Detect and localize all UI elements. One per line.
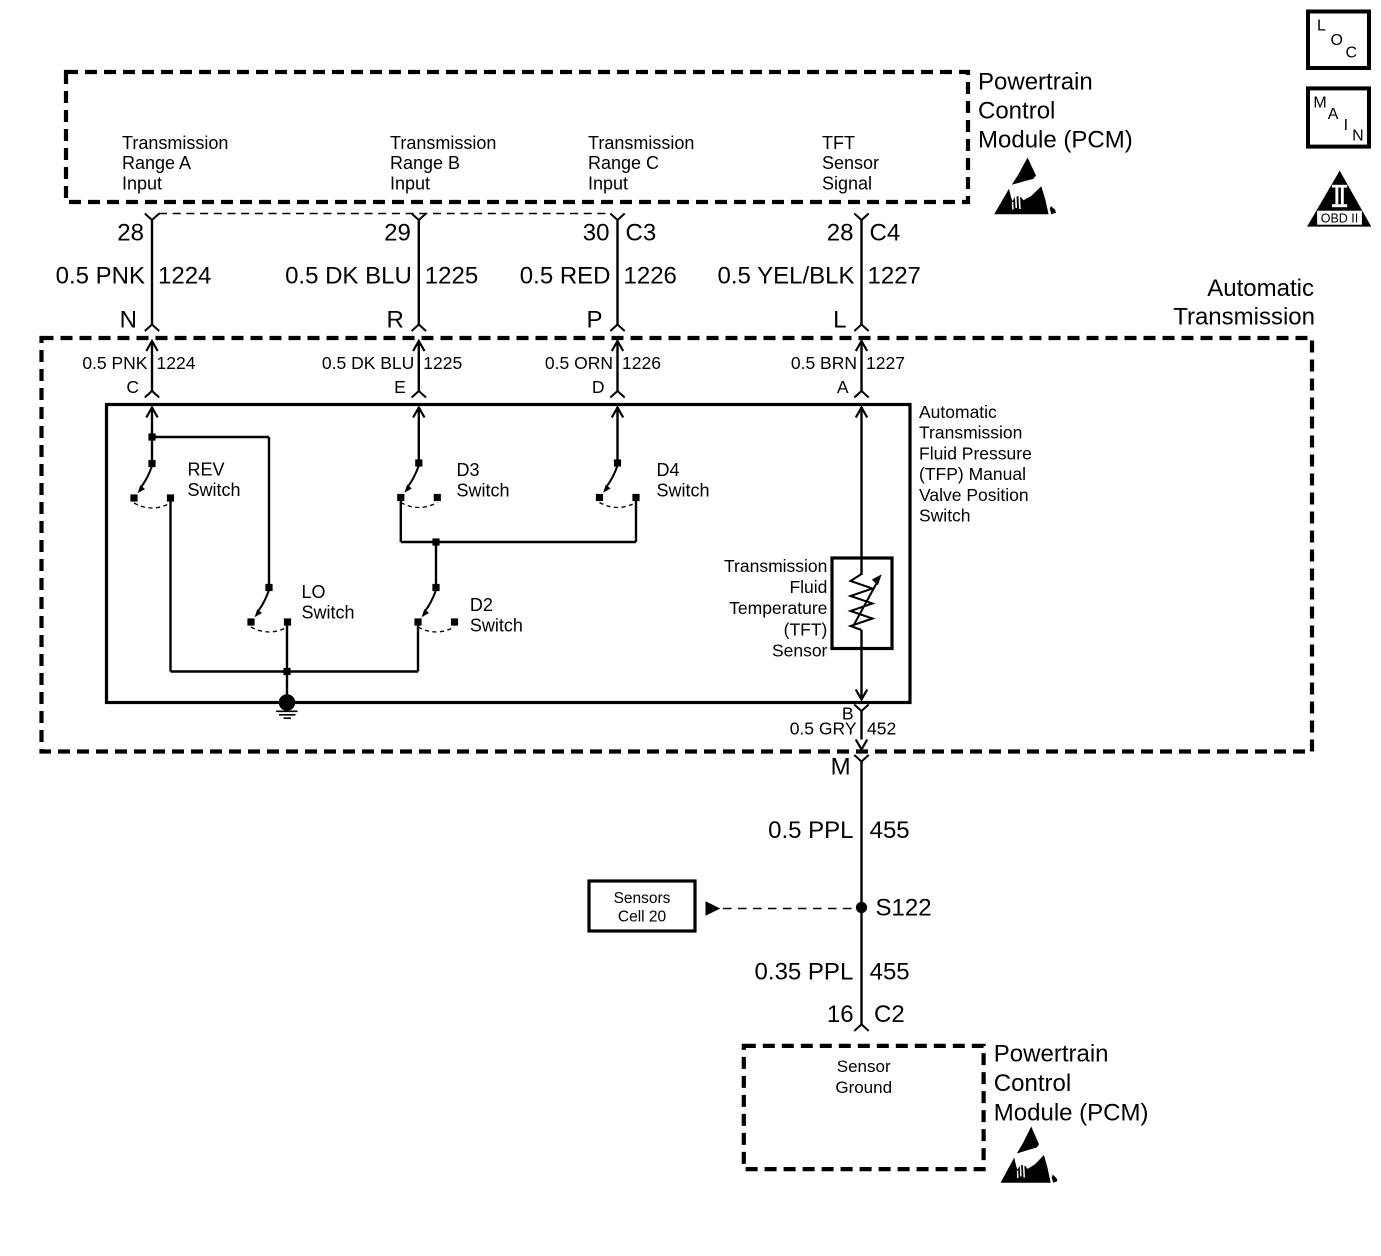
svg-text:Control: Control (978, 98, 1055, 125)
svg-text:0.5 PNK: 0.5 PNK (56, 262, 145, 289)
svg-text:(TFT): (TFT) (784, 619, 828, 639)
svg-text:M: M (1313, 94, 1326, 111)
svg-text:C2: C2 (874, 1001, 905, 1028)
svg-text:D2: D2 (470, 595, 493, 615)
svg-text:1224: 1224 (158, 262, 211, 289)
svg-text:C: C (126, 377, 139, 397)
svg-text:L: L (833, 306, 846, 333)
svg-text:Input: Input (588, 173, 628, 193)
svg-text:C4: C4 (870, 220, 901, 247)
svg-text:Powertrain: Powertrain (994, 1040, 1109, 1067)
svg-text:0.5 GRY: 0.5 GRY (790, 719, 857, 739)
svg-text:Module (PCM): Module (PCM) (978, 127, 1133, 154)
svg-text:Automatic: Automatic (1207, 275, 1314, 302)
svg-text:16: 16 (827, 1001, 854, 1028)
svg-text:Range C: Range C (588, 153, 659, 173)
svg-text:(TFP) Manual: (TFP) Manual (919, 464, 1026, 484)
svg-text:Transmission: Transmission (588, 133, 694, 153)
svg-text:Sensors: Sensors (614, 890, 671, 907)
svg-text:Valve Position: Valve Position (919, 485, 1029, 505)
svg-text:1227: 1227 (866, 353, 905, 373)
svg-text:D4: D4 (657, 460, 680, 480)
svg-text:D3: D3 (457, 460, 480, 480)
svg-text:0.35 PPL: 0.35 PPL (755, 958, 854, 985)
svg-text:Range B: Range B (390, 153, 460, 173)
svg-text:Switch: Switch (657, 481, 710, 501)
svg-text:Sensor: Sensor (837, 1057, 891, 1076)
svg-text:0.5 YEL/BLK: 0.5 YEL/BLK (718, 262, 855, 289)
svg-text:1227: 1227 (868, 262, 921, 289)
svg-text:OBD II: OBD II (1321, 211, 1359, 225)
svg-text:N: N (1352, 128, 1364, 145)
svg-text:O: O (1331, 32, 1343, 49)
svg-text:0.5 PPL: 0.5 PPL (768, 817, 853, 844)
svg-text:Control: Control (994, 1070, 1071, 1097)
svg-text:LO: LO (302, 582, 326, 602)
svg-text:N: N (120, 306, 137, 333)
svg-text:Transmission: Transmission (724, 556, 827, 576)
svg-text:Temperature: Temperature (729, 598, 827, 618)
svg-text:D: D (592, 377, 605, 397)
svg-text:452: 452 (867, 719, 896, 739)
svg-text:REV: REV (188, 460, 225, 480)
svg-text:E: E (394, 377, 406, 397)
svg-text:Transmission: Transmission (390, 133, 496, 153)
svg-text:0.5 ORN: 0.5 ORN (545, 353, 613, 373)
svg-text:M: M (831, 753, 851, 780)
svg-text:455: 455 (870, 817, 910, 844)
svg-text:Sensor: Sensor (772, 640, 828, 660)
svg-text:S122: S122 (876, 895, 932, 922)
svg-text:Switch: Switch (302, 603, 355, 623)
svg-text:Fluid: Fluid (789, 577, 827, 597)
svg-text:A: A (837, 377, 849, 397)
svg-text:L: L (1317, 18, 1326, 35)
svg-text:A: A (1328, 106, 1339, 123)
svg-text:R: R (386, 306, 403, 333)
svg-text:Switch: Switch (919, 506, 971, 526)
svg-text:Input: Input (390, 173, 430, 193)
svg-text:Signal: Signal (822, 173, 872, 193)
svg-text:0.5 PNK: 0.5 PNK (82, 353, 147, 373)
svg-text:Ground: Ground (835, 1078, 892, 1097)
svg-text:1226: 1226 (624, 262, 677, 289)
svg-text:Range A: Range A (122, 153, 191, 173)
svg-text:1225: 1225 (425, 262, 478, 289)
svg-text:0.5 DK BLU: 0.5 DK BLU (285, 262, 412, 289)
svg-text:1226: 1226 (622, 353, 661, 373)
svg-text:P: P (586, 306, 602, 333)
svg-text:28: 28 (827, 220, 854, 247)
svg-text:Cell 20: Cell 20 (618, 909, 667, 926)
svg-text:Sensor: Sensor (822, 153, 879, 173)
svg-text:Switch: Switch (470, 616, 523, 636)
svg-text:0.5 BRN: 0.5 BRN (791, 353, 857, 373)
svg-text:Module (PCM): Module (PCM) (994, 1099, 1149, 1126)
svg-text:C3: C3 (626, 220, 657, 247)
svg-text:Transmission: Transmission (122, 133, 228, 153)
svg-text:Switch: Switch (188, 480, 241, 500)
svg-text:30: 30 (583, 220, 610, 247)
svg-text:Transmission: Transmission (1173, 303, 1315, 330)
svg-text:C: C (1346, 45, 1358, 62)
svg-text:0.5 DK BLU: 0.5 DK BLU (322, 353, 414, 373)
svg-text:TFT: TFT (822, 133, 855, 153)
svg-text:Switch: Switch (457, 481, 510, 501)
svg-text:Fluid Pressure: Fluid Pressure (919, 443, 1032, 463)
svg-text:0.5 RED: 0.5 RED (520, 262, 611, 289)
svg-text:I: I (1344, 117, 1348, 134)
svg-text:Transmission: Transmission (919, 423, 1022, 443)
svg-text:29: 29 (384, 220, 411, 247)
svg-text:Input: Input (122, 173, 162, 193)
svg-text:Powertrain: Powertrain (978, 69, 1093, 96)
svg-text:1225: 1225 (423, 353, 462, 373)
svg-text:Automatic: Automatic (919, 402, 997, 422)
svg-text:455: 455 (870, 958, 910, 985)
svg-text:1224: 1224 (157, 353, 196, 373)
svg-text:28: 28 (117, 220, 144, 247)
